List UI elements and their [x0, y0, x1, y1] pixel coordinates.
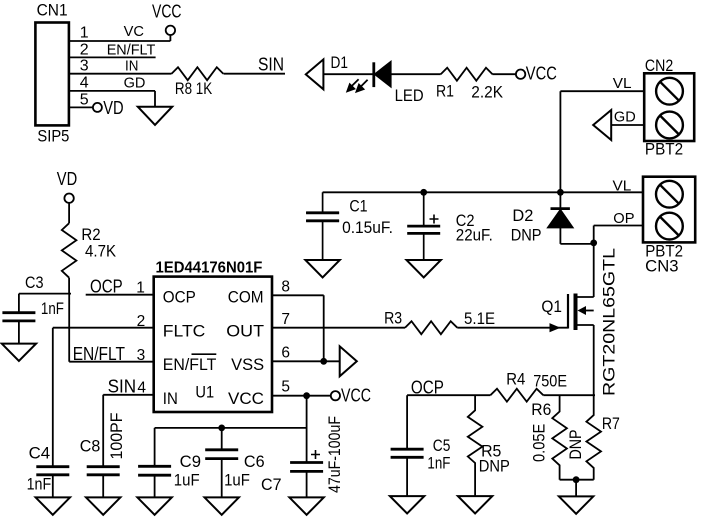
screw terminal CN3-2	[656, 213, 683, 240]
LED D1 triangle	[375, 62, 391, 87]
svg-text:DNP: DNP	[479, 458, 510, 476]
junction C6/rail	[218, 425, 225, 432]
wire node to C3	[19, 293, 71, 295]
wire COM (pin8)	[272, 295, 324, 361]
svg-text:VC: VC	[124, 23, 145, 40]
svg-text:1ED44176N01F: 1ED44176N01F	[156, 260, 263, 277]
wire drain (Q1)	[578, 243, 594, 297]
svg-text:VD: VD	[103, 98, 123, 118]
svg-text:2.2K: 2.2K	[471, 84, 503, 102]
resistor R1	[441, 68, 493, 81]
wire pin2 EN/FLT	[69, 56, 156, 58]
svg-text:VCC: VCC	[228, 390, 264, 408]
svg-text:OCP: OCP	[411, 378, 444, 398]
plus sign C7	[311, 450, 320, 459]
svg-text:1nF: 1nF	[427, 455, 450, 473]
svg-text:OCP: OCP	[163, 289, 196, 307]
svg-text:C7: C7	[261, 476, 282, 494]
svg-text:Q1: Q1	[541, 298, 562, 316]
ground (C7)	[289, 497, 323, 514]
svg-text:LED: LED	[395, 87, 424, 105]
capacitor C9	[154, 428, 156, 498]
svg-text:D1: D1	[331, 54, 349, 72]
svg-text:VCC: VCC	[341, 386, 371, 406]
capacitor C4	[52, 475, 54, 498]
svg-text:6: 6	[281, 345, 290, 362]
svg-text:2: 2	[80, 41, 89, 58]
svg-text:R3: R3	[384, 310, 402, 328]
svg-text:1uF: 1uF	[224, 472, 250, 490]
ground (C3)	[2, 344, 36, 361]
wire pin5 to VD terminal	[69, 106, 93, 108]
ground (C6)	[205, 497, 239, 514]
svg-text:EN/FLT: EN/FLT	[73, 344, 125, 364]
svg-text:5: 5	[281, 379, 290, 396]
svg-text:C8: C8	[80, 438, 101, 456]
wire VCC (pin5)	[272, 395, 331, 397]
wire LED to R1	[391, 73, 441, 75]
resistor R5	[468, 395, 483, 496]
LED D1 cathode bar	[372, 62, 375, 87]
wire VL rail	[323, 191, 643, 193]
resistor R7	[586, 395, 601, 480]
svg-text:R1: R1	[436, 83, 454, 101]
svg-text:OP: OP	[613, 210, 634, 227]
svg-text:1: 1	[80, 25, 89, 42]
wire pin3 IN to R8	[69, 73, 172, 75]
ground (R6/R7)	[559, 496, 593, 513]
capacitor C8	[102, 475, 104, 498]
wire FLTC (pin2) to C4	[53, 328, 154, 467]
svg-text:1nF: 1nF	[27, 476, 52, 494]
svg-text:VSS: VSS	[231, 356, 264, 374]
capacitor C2	[423, 192, 425, 260]
transistor Q1 body arrow	[586, 310, 594, 312]
ground (R5)	[458, 496, 492, 513]
svg-text:U1: U1	[195, 384, 214, 402]
junction R6/R7 ground	[573, 476, 580, 483]
wire D2 to OP node	[560, 243, 593, 245]
svg-text:D2: D2	[512, 207, 533, 225]
power terminal VCC (top-left)	[166, 26, 175, 35]
svg-text:SIP5: SIP5	[37, 128, 69, 146]
svg-text:EN/FLT: EN/FLT	[163, 356, 217, 374]
capacitor C3	[18, 294, 20, 344]
svg-text:CN2: CN2	[645, 57, 673, 75]
connector CN2 box	[644, 73, 694, 141]
connector CN3 box	[643, 177, 695, 243]
svg-text:GD: GD	[124, 74, 146, 91]
svg-text:VD: VD	[57, 169, 77, 189]
svg-text:4: 4	[80, 75, 89, 92]
wire R2 to node	[68, 278, 70, 294]
diode D2	[559, 192, 561, 244]
svg-text:22uF.: 22uF.	[456, 227, 493, 245]
junction pin5/C7	[303, 392, 310, 399]
svg-text:47uF-100uF: 47uF-100uF	[326, 416, 344, 493]
svg-text:7: 7	[281, 311, 290, 328]
svg-text:GD: GD	[614, 109, 636, 126]
svg-text:5: 5	[80, 91, 89, 108]
svg-text:100PF: 100PF	[108, 413, 126, 460]
svg-text:1: 1	[136, 280, 145, 297]
IC U1 box	[154, 277, 272, 412]
screw terminal CN2-2	[656, 112, 683, 139]
svg-text:3: 3	[80, 58, 89, 75]
svg-text:IN: IN	[125, 58, 138, 75]
svg-text:C3: C3	[25, 274, 44, 292]
svg-text:5.1E: 5.1E	[464, 310, 495, 328]
wire VD to R2	[68, 203, 70, 223]
junction OP/D2/drain	[590, 240, 597, 247]
resistor R3	[405, 321, 457, 334]
LED D1 emission arrow 1	[347, 79, 358, 91]
terminal VD (CN1 pin5)	[93, 103, 102, 112]
wire R3 to gate	[457, 327, 568, 329]
ground (C9)	[137, 497, 171, 514]
svg-text:C4: C4	[29, 445, 50, 463]
resistor R6	[552, 395, 567, 480]
svg-text:4: 4	[137, 380, 146, 397]
svg-text:C1: C1	[349, 197, 367, 215]
ground (C8)	[86, 497, 120, 514]
capacitor C7	[306, 471, 308, 497]
svg-text:VL: VL	[613, 75, 632, 92]
power terminal VCC (pin5)	[331, 391, 340, 400]
screw terminal CN2-1	[656, 78, 683, 105]
junction C2/rail	[420, 189, 427, 196]
svg-text:COM: COM	[228, 289, 264, 307]
ground (CN1 pin4)	[138, 107, 172, 125]
wire EN/FLT (pin3) to R2/C3 node	[69, 294, 154, 362]
svg-text:1nF: 1nF	[41, 300, 64, 318]
svg-text:SIN: SIN	[108, 377, 137, 397]
ground (C2)	[407, 260, 441, 277]
svg-text:RGT20NL65GTL: RGT20NL65GTL	[601, 248, 619, 396]
wire SIN stub	[224, 73, 286, 75]
wire GD (CN2)	[611, 124, 644, 126]
svg-text:VL: VL	[613, 178, 632, 195]
resistor R2	[62, 223, 77, 278]
svg-text:R8 1K: R8 1K	[175, 80, 212, 98]
svg-text:OCP: OCP	[90, 277, 123, 297]
wire OCP net (bottom)	[407, 394, 595, 396]
transistor Q1 channel bar	[574, 294, 578, 331]
ground (C4)	[36, 497, 70, 514]
port SIN (input arrow)	[306, 59, 324, 89]
wire source (Q1)	[578, 325, 594, 395]
wire pin4 GD to ground	[69, 91, 155, 107]
svg-text:750E: 750E	[533, 373, 567, 391]
wire VSS (pin6) to port	[272, 360, 340, 362]
resistor R8	[172, 67, 224, 80]
svg-text:0.15uF.: 0.15uF.	[342, 219, 393, 237]
svg-text:SIN: SIN	[258, 55, 284, 75]
svg-text:FLTC: FLTC	[163, 323, 206, 341]
capacitor C1	[306, 192, 339, 260]
svg-text:CN1: CN1	[37, 2, 68, 20]
transistor Q1 gate bar	[567, 294, 569, 329]
wire OCP stub (pin1)	[86, 294, 154, 296]
svg-text:C9: C9	[180, 453, 201, 471]
svg-text:R2: R2	[81, 226, 100, 244]
terminal VD (R2 top)	[64, 194, 73, 203]
svg-text:DNP: DNP	[511, 227, 542, 245]
power terminal VCC (R1)	[516, 70, 525, 79]
connector CN1 (SIP5) box	[35, 23, 69, 126]
wire VL (CN2)	[560, 91, 644, 192]
svg-text:EN/FLT: EN/FLT	[107, 41, 156, 58]
wire port to LED	[323, 73, 373, 75]
junction pin8/pin6	[320, 358, 327, 365]
svg-text:VCC: VCC	[152, 2, 182, 22]
svg-text:OUT: OUT	[226, 323, 264, 341]
svg-text:R7: R7	[602, 415, 620, 433]
resistor R4	[490, 389, 543, 402]
svg-text:CN3: CN3	[645, 258, 678, 276]
svg-text:2: 2	[137, 313, 146, 330]
svg-text:R4: R4	[506, 371, 525, 389]
wire OP (CN3)	[594, 226, 643, 243]
svg-text:4.7K: 4.7K	[85, 243, 116, 261]
wire R1 to VCC	[492, 73, 516, 75]
svg-text:VCC: VCC	[526, 64, 557, 84]
svg-text:DNP: DNP	[567, 430, 585, 460]
svg-text:C5: C5	[433, 437, 451, 455]
screw terminal CN3-1	[656, 181, 683, 208]
wire IN (pin4) to C8	[103, 395, 154, 467]
svg-text:R6: R6	[531, 401, 551, 419]
svg-text:1uF: 1uF	[174, 472, 200, 490]
svg-text:PBT2: PBT2	[645, 141, 683, 159]
svg-text:3: 3	[137, 347, 146, 364]
ground (C1)	[305, 260, 339, 277]
capacitor C6	[221, 428, 223, 498]
port VSS (output arrow)	[340, 346, 357, 376]
capacitor C5	[406, 395, 408, 496]
ground (C5)	[390, 496, 424, 513]
wire VCC rail to caps	[155, 396, 307, 463]
svg-text:IN: IN	[163, 390, 178, 408]
svg-text:C6: C6	[244, 453, 265, 471]
svg-text:0.05E: 0.05E	[531, 424, 549, 462]
port GD	[593, 110, 611, 140]
wire OUT (pin7) to R3	[272, 327, 405, 329]
svg-text:8: 8	[281, 279, 290, 296]
wire R6/R7 bottom	[560, 480, 594, 497]
wire pin1 VC to VCC	[69, 35, 170, 41]
LED D1 emission arrow 2	[357, 80, 368, 92]
junction VL/D2	[557, 189, 564, 196]
plus sign C2	[430, 215, 439, 224]
gate arrowhead	[550, 323, 561, 332]
